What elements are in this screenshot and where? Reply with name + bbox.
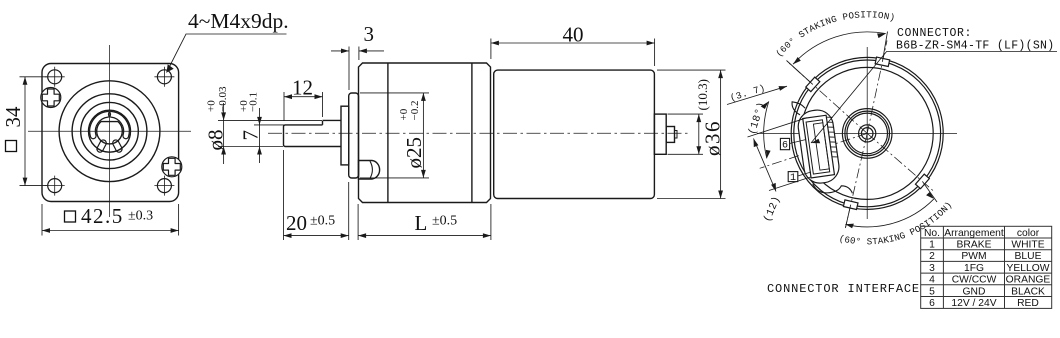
bearing boss circle 2 <box>845 111 890 156</box>
motor body <box>494 70 655 198</box>
svg-text:1: 1 <box>929 240 935 251</box>
connector crimp comb <box>827 116 839 157</box>
dim ø8 line with outside arrows <box>223 103 225 164</box>
dim 10.3 line <box>698 114 700 154</box>
svg-text:±0.3: ±0.3 <box>128 209 153 224</box>
dim square34 label <box>1 106 25 152</box>
dim L extension lines <box>358 204 491 240</box>
connector leader arrow <box>811 139 820 144</box>
table outer border <box>921 226 1052 308</box>
staking arc bottom 60deg <box>845 199 934 227</box>
dim ø36 extension lines <box>657 70 726 198</box>
dim 40 line <box>491 42 655 44</box>
dim 7 extension lines <box>254 124 284 126</box>
dim 40 extension lines <box>491 39 655 67</box>
dim 42.5 line <box>42 230 179 232</box>
staking pin cylinder <box>359 161 380 180</box>
radial dash-dot 198deg connector axis <box>760 133 868 168</box>
M4 hole bottom-left <box>45 176 65 196</box>
rear view annotations <box>727 9 1057 247</box>
svg-text:4~M4x9dp.: 4~M4x9dp. <box>188 9 289 33</box>
svg-text:±0.5: ±0.5 <box>432 214 457 229</box>
svg-text:(10.3): (10.3) <box>695 79 710 110</box>
staking arc top 60deg <box>793 32 886 64</box>
connector boss bottom appendage <box>813 178 853 198</box>
svg-text:34: 34 <box>1 106 25 128</box>
pilot boss ø25 <box>349 93 359 178</box>
phillips screw top-left <box>41 88 61 108</box>
svg-text:PWM: PWM <box>961 251 986 262</box>
leader M4 text underline <box>167 34 287 73</box>
arc 18deg arrows <box>761 101 771 158</box>
svg-text:−0.03: −0.03 <box>217 86 229 112</box>
svg-text:YELLOW: YELLOW <box>1007 263 1050 274</box>
connector assembly <box>792 95 853 200</box>
svg-text:BLACK: BLACK <box>1011 286 1045 297</box>
radial dash-dot 138deg <box>788 63 867 134</box>
svg-text:−0.1: −0.1 <box>248 92 260 112</box>
svg-text:L: L <box>415 211 428 235</box>
svg-text:WHITE: WHITE <box>1011 240 1044 251</box>
svg-text:5: 5 <box>929 286 935 297</box>
connector housing rect <box>803 115 835 178</box>
bearing boss circle 3 <box>847 113 888 154</box>
label (3.7) <box>729 82 767 103</box>
dim 42.5 arrows <box>42 228 179 233</box>
label (18deg) <box>747 100 769 136</box>
svg-text:42.5: 42.5 <box>81 204 124 228</box>
radial extension bottom-right tab <box>922 181 937 202</box>
svg-text:ø8: ø8 <box>204 130 228 151</box>
dim ø8 extension lines <box>218 120 322 146</box>
dim 3 line <box>331 50 384 52</box>
dim 7 arrows <box>257 117 262 155</box>
dim 42.5 extension lines <box>42 204 179 236</box>
arc 18deg <box>764 101 769 158</box>
gearbox rear ring line <box>471 63 473 203</box>
dim 10.3 extension lines <box>668 114 704 154</box>
svg-text:6: 6 <box>782 141 788 152</box>
svg-text:12: 12 <box>292 76 313 100</box>
dim ø36 line <box>720 70 722 198</box>
side view dimensions <box>204 22 726 240</box>
svg-text:ø36: ø36 <box>701 120 725 156</box>
M4 hole bottom-right <box>154 176 174 196</box>
radial extension bottom tab <box>845 205 850 228</box>
face circle 3 <box>81 102 139 160</box>
staking tab top-left <box>806 77 820 92</box>
pin 6 leader <box>790 140 806 144</box>
svg-text:CONNECTOR:: CONNECTOR: <box>897 27 972 40</box>
dim square34 arrows <box>23 77 28 186</box>
dim 7 line <box>259 108 261 163</box>
svg-text:12V / 24V: 12V / 24V <box>951 298 996 309</box>
hub tooth lower-left <box>97 140 106 152</box>
rear pin center tick <box>675 131 678 139</box>
centerline vertical <box>866 47 868 219</box>
svg-text:ORANGE: ORANGE <box>1006 275 1051 286</box>
dim ø36 arrows <box>718 70 723 198</box>
dim square34 line <box>24 77 26 186</box>
svg-text:CONNECTOR INTERFACE: CONNECTOR INTERFACE <box>767 282 920 296</box>
dim 12 extension lines <box>284 92 323 121</box>
dim square34 extension lines <box>20 77 48 186</box>
radial dash-dot -41deg <box>867 133 933 191</box>
svg-text:color: color <box>1017 228 1040 239</box>
hub tooth lower-right <box>113 140 122 152</box>
svg-text:BRAKE: BRAKE <box>957 240 992 251</box>
svg-text:CW/CCW: CW/CCW <box>952 275 997 286</box>
svg-text:4: 4 <box>929 275 935 286</box>
svg-text:RED: RED <box>1017 298 1039 309</box>
svg-text:6: 6 <box>929 298 935 309</box>
svg-text:Arrangement: Arrangement <box>944 228 1004 239</box>
motor case inner circle <box>801 67 933 199</box>
pin 1 box <box>788 172 798 182</box>
staking tab bottom <box>843 200 858 210</box>
staking arc bottom arrows <box>845 192 934 228</box>
table row lines <box>921 238 1052 297</box>
M4 hole top-right <box>154 67 174 87</box>
dim 12 extension line upper <box>748 118 808 137</box>
dim 10.3 arrows <box>696 114 701 154</box>
table column lines <box>943 226 1004 308</box>
staking arc top arrows <box>793 33 886 64</box>
gearbox face circle outer <box>59 81 160 182</box>
dim 7 label <box>238 92 263 140</box>
hub crescent ear left <box>90 111 111 138</box>
label (12) <box>762 194 784 224</box>
bearing boss <box>341 106 349 165</box>
dim 20 line <box>284 235 349 237</box>
dim 12 line <box>284 96 323 98</box>
dim 12 arrows <box>754 139 777 192</box>
svg-text:7: 7 <box>239 130 263 141</box>
dim ø25 extension lines <box>360 93 429 178</box>
rear bearing boss <box>654 114 666 154</box>
svg-text:1FG: 1FG <box>964 263 984 274</box>
dim L arrows <box>358 233 491 238</box>
output shaft outline with flat <box>283 120 341 146</box>
dim ø25 arrows <box>421 93 426 178</box>
staking pin end arc <box>370 161 372 178</box>
motor rear outer circle <box>791 57 943 209</box>
dim 12 arrows <box>284 94 323 99</box>
dim 3 extension lines <box>349 47 359 91</box>
hub crescent ear right <box>108 111 129 138</box>
front view dimensions <box>1 9 289 236</box>
radial dash-dot -103deg <box>846 133 868 227</box>
svg-text:3: 3 <box>364 22 375 46</box>
radial extension top-left tab <box>787 61 813 85</box>
M4 hole top-left <box>45 67 65 87</box>
dim 20 label <box>286 211 335 235</box>
rear shaft circle <box>861 128 873 140</box>
connector boss top appendage <box>792 100 806 116</box>
face circle 2 <box>72 94 147 169</box>
dim L line <box>358 235 491 237</box>
dim 12 line <box>754 139 777 192</box>
dim ø25 label <box>398 101 426 169</box>
centerline of motor axis <box>268 132 688 134</box>
output shaft circle with flat (D-cut) <box>97 122 123 144</box>
dim 3.7 line <box>727 86 787 104</box>
dim 12 extension line lower <box>769 177 811 191</box>
connector pin row rect <box>813 123 829 170</box>
bearing inner circle <box>859 125 876 142</box>
dim 10.3 label <box>695 79 710 110</box>
gearbox housing <box>359 63 491 203</box>
dim 20 arrows <box>284 233 349 238</box>
connector boss outline <box>796 108 841 185</box>
radial extension top tab <box>882 32 887 62</box>
dim 42.5 label <box>65 204 154 228</box>
centerline horizontal <box>28 130 191 132</box>
svg-text:2: 2 <box>929 251 935 262</box>
svg-text:40: 40 <box>563 23 584 47</box>
dim 20 extension lines <box>284 150 349 240</box>
pin 1 leader <box>798 172 811 176</box>
rear shaft pin <box>666 127 674 143</box>
svg-text:20: 20 <box>286 211 307 235</box>
flange square outline <box>42 64 179 202</box>
dim 40 arrows <box>491 41 655 46</box>
dim ø8 arrows <box>221 112 226 154</box>
radial dash-dot 78deg <box>867 41 887 134</box>
phillips screw bottom-right <box>162 157 182 177</box>
dim 3.7 arrow <box>779 86 788 91</box>
svg-text:+0: +0 <box>206 100 218 112</box>
face circle 4 <box>89 110 131 152</box>
svg-text:BLUE: BLUE <box>1015 251 1042 262</box>
svg-text:1: 1 <box>790 173 796 184</box>
centerline vertical <box>109 45 111 217</box>
connector slot rect <box>806 120 830 174</box>
dim 3 arrows <box>341 49 367 54</box>
dim ø25 line <box>422 93 424 178</box>
svg-text:±0.5: ±0.5 <box>310 214 335 229</box>
table text <box>924 228 1050 309</box>
svg-text:No.: No. <box>924 228 940 239</box>
staking tab bottom-right <box>915 174 929 189</box>
svg-text:GND: GND <box>963 286 986 297</box>
connector label underline <box>811 52 1057 144</box>
pin 6 box <box>780 138 789 149</box>
bearing boss circle 1 <box>842 109 892 159</box>
leader M4 arrow <box>167 64 174 72</box>
motor rear outer circle inner edge <box>794 60 941 207</box>
dim ø36 label <box>701 120 725 156</box>
svg-text:ø25: ø25 <box>402 137 426 169</box>
svg-text:B6B-ZR-SM4-TF (LF)(SN): B6B-ZR-SM4-TF (LF)(SN) <box>896 40 1054 53</box>
dim ø8 label <box>204 86 229 150</box>
svg-text:−0.2: −0.2 <box>409 101 421 121</box>
staking tab top <box>875 57 890 66</box>
gearbox front ring line <box>387 63 389 203</box>
svg-text:3: 3 <box>929 263 935 274</box>
centerline horizontal <box>757 132 957 134</box>
dim L label <box>415 211 458 235</box>
